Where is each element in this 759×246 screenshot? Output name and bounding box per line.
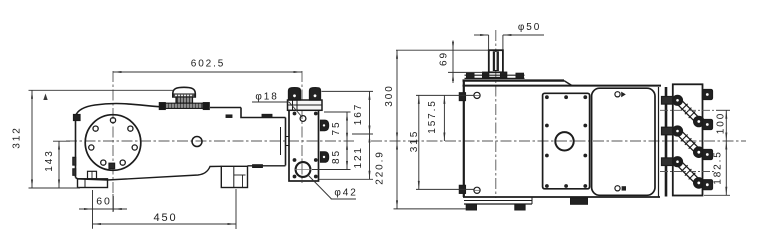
svg-text:φ18: φ18 — [255, 91, 278, 102]
plunger axis centerline bottom — [660, 171, 716, 173]
cover bolt holes (7x) — [89, 118, 138, 166]
dimension 300 and 220.9 (chained) — [375, 50, 467, 209]
oil filler cap — [159, 87, 209, 109]
svg-text:φ42: φ42 — [334, 188, 357, 199]
top face bump 1 — [226, 115, 232, 118]
centerline: shaft vertical (x=495.8) — [495, 30, 497, 198]
dowel at cover bottom — [109, 163, 115, 168]
bearing cover bar — [465, 73, 525, 78]
left foot — [78, 171, 108, 187]
dimension 167 and 121 (chained) — [319, 91, 373, 179]
plunger assembly 3 (diagonal) — [662, 157, 705, 188]
centerline: crankshaft vertical (x=113) — [112, 71, 114, 212]
svg-text:167: 167 — [353, 103, 364, 125]
gland bolts on plate (6x) — [293, 112, 318, 179]
rear cover plate (rounded) — [592, 88, 655, 195]
dimension 60 — [79, 190, 127, 229]
svg-text:450: 450 — [153, 212, 177, 224]
right foot — [221, 166, 247, 187]
dimension 315 — [409, 95, 420, 189]
pump body outline (end view) — [463, 80, 667, 197]
top-left corner lug — [74, 115, 81, 121]
base flange and feet — [464, 197, 588, 210]
top face bump 2 — [262, 114, 272, 117]
dimension phi50 — [474, 22, 544, 50]
dimension 157.5 — [416, 95, 474, 189]
phi18 gauge port circle — [300, 116, 306, 122]
svg-text:315: 315 — [409, 130, 420, 152]
vent plug bottom — [615, 186, 626, 191]
thick boss on bottom line — [253, 165, 263, 168]
svg-text:157.5: 157.5 — [427, 99, 438, 134]
svg-text:182.5: 182.5 — [712, 150, 723, 185]
centerline: left view horizontal axis — [66, 140, 354, 142]
svg-text:φ50: φ50 — [518, 22, 541, 33]
svg-text:69: 69 — [439, 51, 450, 66]
drive shaft with keyway (phi50) — [483, 50, 507, 77]
svg-text:312: 312 — [12, 126, 23, 148]
svg-text:121: 121 — [353, 146, 364, 168]
crankcase cover circle — [85, 115, 141, 171]
centerline: fluid end vertical (x=302) — [301, 71, 303, 183]
dimension 602.5 — [113, 59, 302, 74]
svg-text:85: 85 — [331, 149, 342, 164]
label phi42 with leader — [308, 175, 358, 200]
discharge flange and studs (phi18) — [288, 88, 323, 111]
vent plug top — [615, 92, 626, 98]
mounting lug and hole top-left — [459, 92, 480, 100]
suction port lug upper — [321, 120, 329, 130]
svg-text:60: 60 — [96, 195, 111, 207]
left edge bump lower — [73, 169, 76, 176]
suction port lug lower — [321, 152, 329, 162]
inspection plug circle — [192, 137, 202, 147]
left edge bump upper — [73, 157, 76, 165]
fluid end plate — [281, 107, 319, 182]
plunger axis centerline top — [660, 109, 716, 111]
mounting lug and hole bottom-left — [459, 185, 480, 193]
dimension 69 — [396, 41, 489, 84]
plunger assembly 1 (diagonal) — [662, 95, 705, 126]
dimension 450 — [93, 189, 237, 229]
dimension 75 and 85 (chained) — [312, 112, 351, 170]
phi42 shaft hole circle — [295, 162, 311, 177]
label phi18 with leader — [252, 91, 302, 117]
fluid end block (end view) — [673, 84, 703, 195]
svg-text:300: 300 — [384, 84, 395, 106]
svg-text:100: 100 — [715, 112, 726, 134]
dimension 312 — [12, 90, 174, 188]
svg-text:75: 75 — [331, 121, 342, 136]
svg-text:143: 143 — [44, 149, 55, 171]
centerline: right view horizontal axis — [371, 140, 746, 142]
svg-text:602.5: 602.5 — [191, 59, 226, 70]
pump body outline (left view) — [76, 104, 286, 181]
dimension 100 and 182.5 (chained) — [704, 110, 730, 195]
side cover plate with center hole — [543, 93, 590, 189]
dimension 143 — [44, 141, 70, 188]
plunger assembly 2 (diagonal) — [662, 126, 705, 157]
svg-text:220.9: 220.9 — [375, 150, 386, 185]
valve cover lugs (4x) — [703, 90, 713, 190]
